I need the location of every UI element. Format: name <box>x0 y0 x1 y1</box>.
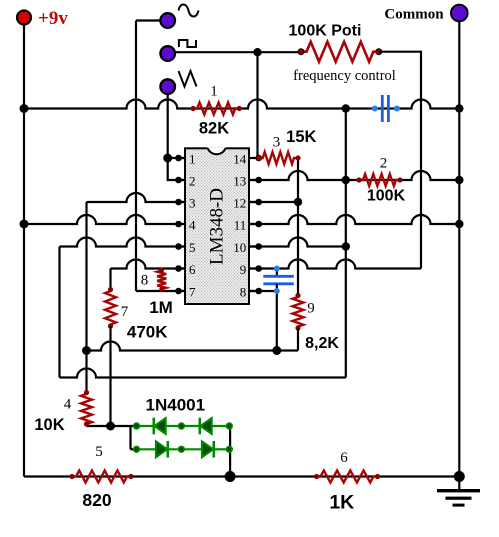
svg-text:5: 5 <box>189 240 196 255</box>
diode D3 1N4001 <box>156 441 168 458</box>
wire square terminal row <box>175 51 301 53</box>
capacitor C2 top plate <box>263 275 294 278</box>
resistor R5 right dot <box>128 474 133 479</box>
svg-text:2: 2 <box>189 174 196 189</box>
resistor R9 zigzag <box>293 295 304 329</box>
junction dot bridge bottom <box>225 471 236 482</box>
wire square drop to pin14 <box>256 52 258 158</box>
svg-text:1N4001: 1N4001 <box>146 396 206 415</box>
label 8 <box>141 273 149 289</box>
diode D1 1N4001 <box>154 418 166 435</box>
wire pin9 row <box>249 260 421 269</box>
bridge dot TL <box>134 423 140 429</box>
pin 8 number <box>240 285 247 300</box>
resistor R9 top dot <box>295 293 300 298</box>
wire pin3 row <box>87 193 186 202</box>
junction dot pin1 <box>163 154 172 163</box>
resistor R6 left dot <box>314 474 319 479</box>
pin 2 number <box>189 174 196 189</box>
node triangle output terminal <box>160 79 175 94</box>
wire common rail <box>458 21 460 477</box>
resistor R5 820 zigzag <box>72 471 131 483</box>
label 1 <box>210 84 218 100</box>
label 7 <box>121 304 129 320</box>
wire pin11 row <box>249 215 459 224</box>
resistor R1 left dot <box>191 106 196 111</box>
junction dot rail-bus <box>20 104 29 113</box>
svg-text:13: 13 <box>233 174 246 189</box>
capacitor C1 left plate <box>381 95 384 122</box>
bridge dot BC <box>179 446 185 452</box>
label 100K Poti <box>289 23 362 40</box>
pin 2 stub <box>175 177 185 184</box>
pin 13 stub <box>249 177 262 184</box>
pin 9 number <box>240 262 247 277</box>
svg-text:820: 820 <box>82 490 111 510</box>
sine waveform symbol <box>179 5 199 17</box>
wire mid vertical x345 <box>345 109 347 378</box>
resistor R5 left dot <box>69 474 74 479</box>
wire triangle drop to pin1 <box>167 94 169 158</box>
resistor R3 right dot <box>295 155 300 160</box>
resistor R2 100K zigzag <box>359 174 400 186</box>
junction dot row351 left <box>82 346 91 355</box>
svg-text:8: 8 <box>141 273 149 289</box>
svg-text:6: 6 <box>340 450 348 466</box>
junction dot square row <box>253 48 261 56</box>
capacitor C1 left dot <box>372 106 378 112</box>
svg-text:6: 6 <box>189 262 196 277</box>
resistor R8 bottom dot <box>159 287 164 292</box>
svg-text:5: 5 <box>95 444 103 460</box>
label 5 <box>95 444 103 460</box>
resistor R6 1K zigzag <box>317 471 378 483</box>
resistor R1 right dot <box>237 106 242 111</box>
wire R7 bottom lead <box>109 327 111 427</box>
svg-text:7: 7 <box>189 285 196 300</box>
label LM348-D <box>206 188 227 265</box>
svg-text:+9v: +9v <box>38 8 68 29</box>
resistor R2 left dot <box>356 177 361 182</box>
pin 12 stub <box>249 199 262 206</box>
resistor R3 15K zigzag <box>259 152 298 164</box>
pin 7 number <box>189 285 196 300</box>
capacitor C2 bottom dot <box>274 288 280 294</box>
resistor R3 left dot <box>256 155 261 160</box>
label 100K <box>367 188 406 205</box>
svg-text:2: 2 <box>380 156 388 172</box>
resistor R4 zigzag <box>81 392 92 426</box>
label 1N4001 <box>146 396 206 415</box>
junction dot pin11 common <box>455 220 463 228</box>
svg-text:1: 1 <box>189 152 196 167</box>
resistor R7 top dot <box>108 287 113 292</box>
svg-text:3: 3 <box>189 196 196 211</box>
pin 4 number <box>189 218 196 233</box>
label 3 <box>273 135 281 151</box>
resistor R8 top dot <box>159 268 164 273</box>
label 8,2K <box>305 335 339 352</box>
diode D4 1N4001 <box>202 441 214 458</box>
wire cap2 top stub <box>276 269 278 277</box>
junction dot common bottom <box>454 471 465 482</box>
capacitor C2 top dot <box>274 266 280 272</box>
potentiometer 100K Poti zigzag <box>301 42 379 62</box>
wire bus row y108 <box>24 100 459 109</box>
pin 1 number <box>189 152 196 167</box>
svg-text:100K Poti: 100K Poti <box>289 23 362 40</box>
svg-text:9: 9 <box>240 262 247 277</box>
label 9 <box>307 301 315 317</box>
wire R7 top lead <box>109 269 111 290</box>
ground symbol <box>437 489 480 507</box>
wire pin2 branch <box>168 158 185 180</box>
resistor R7 zigzag <box>105 289 116 327</box>
capacitor C1 right plate <box>387 95 390 122</box>
label 1K <box>329 492 354 514</box>
wire sine vertical drop to pin7 <box>135 21 137 292</box>
junction dot pin10 x345 <box>342 242 350 250</box>
svg-text:8: 8 <box>240 285 247 300</box>
svg-text:10: 10 <box>233 240 246 255</box>
diode D2 1N4001 <box>200 418 212 435</box>
svg-text:7: 7 <box>121 304 129 320</box>
bridge dot BR <box>226 446 232 452</box>
wire sine terminal to vertical <box>136 19 160 21</box>
square waveform symbol <box>179 40 196 47</box>
resistor R8 zigzag <box>157 269 166 292</box>
pin 1 stub <box>175 155 185 162</box>
label 10K <box>34 416 64 434</box>
pin 10 number <box>233 240 246 255</box>
wire pin8 row <box>249 290 277 292</box>
label 470K <box>127 323 168 342</box>
capacitor C2 bottom plate <box>263 282 294 285</box>
pin 8 stub <box>249 288 262 295</box>
wire pin7 row <box>136 290 185 292</box>
pin 6 stub <box>175 265 185 272</box>
svg-text:12: 12 <box>233 196 246 211</box>
svg-text:frequency control: frequency control <box>293 68 396 84</box>
pin 10 stub <box>249 243 262 250</box>
wire row426 <box>87 425 137 427</box>
svg-text:4: 4 <box>189 218 196 233</box>
pin 6 number <box>189 262 196 277</box>
wire pin4 row <box>24 215 185 224</box>
pin 4 stub <box>175 221 185 228</box>
wire pin5 row <box>60 238 186 247</box>
label 4 <box>64 397 72 413</box>
wire bridge right vertical black <box>229 426 231 477</box>
pin 14 number <box>233 152 247 167</box>
svg-text:Common: Common <box>384 7 444 23</box>
resistor R7 bottom dot <box>108 323 113 328</box>
svg-text:1M: 1M <box>149 298 173 317</box>
svg-text:8,2K: 8,2K <box>305 335 339 352</box>
svg-text:3: 3 <box>273 135 281 151</box>
pin 3 number <box>189 196 196 211</box>
label 2 <box>380 156 388 172</box>
svg-text:9: 9 <box>307 301 315 317</box>
label +9v <box>38 8 68 29</box>
pin 9 stub <box>249 265 262 272</box>
pin 7 stub <box>175 288 185 295</box>
resistor R9 bottom dot <box>295 325 300 330</box>
wire poti right corner down <box>379 52 421 269</box>
junction dot pin13 common <box>455 176 463 184</box>
op-amp U1 LM348-D body <box>185 148 249 304</box>
label 820 <box>82 490 111 510</box>
node sine output terminal <box>160 13 175 28</box>
pin 14 stub <box>249 155 262 162</box>
junction dot row426 <box>106 422 115 431</box>
pin 11 number <box>234 218 247 233</box>
label 1M <box>149 298 173 317</box>
junction dot rail pin4 <box>20 220 29 229</box>
bridge dot TC <box>179 423 185 429</box>
triangle waveform symbol <box>179 71 197 87</box>
label 15K <box>286 128 316 146</box>
svg-text:4: 4 <box>64 397 72 413</box>
node +9v terminal <box>17 11 31 25</box>
wire pin13 row <box>249 171 459 180</box>
svg-text:470K: 470K <box>127 323 168 342</box>
pin 11 stub <box>249 221 262 228</box>
bridge dot TR <box>226 423 232 429</box>
junction dot pin13 x345 <box>342 176 350 184</box>
pin 3 stub <box>175 199 185 206</box>
resistor R2 right dot <box>397 177 402 182</box>
wire bottom row <box>24 475 459 477</box>
wire ground stub <box>458 477 460 490</box>
wire pin6 row <box>111 260 186 269</box>
poti left dot <box>298 49 304 55</box>
pin 5 number <box>189 240 196 255</box>
wire x298 vertical <box>297 158 299 295</box>
node square output terminal <box>160 46 175 61</box>
node Common terminal <box>451 5 468 22</box>
pin 13 number <box>233 174 246 189</box>
svg-text:14: 14 <box>233 152 247 167</box>
pin 12 number <box>233 196 246 211</box>
bridge dot BL <box>134 446 140 452</box>
wire +9v rail vertical <box>23 25 25 477</box>
label frequency control <box>293 68 396 84</box>
wire pin5 corner drop <box>58 247 60 378</box>
resistor R4 top dot <box>84 390 89 395</box>
svg-text:15K: 15K <box>286 128 316 146</box>
junction dot cap2 row351 <box>272 346 281 355</box>
wire bridge bottom rail <box>137 448 230 450</box>
svg-text:100K: 100K <box>367 188 406 205</box>
wire cap2 bottom stub <box>276 284 278 351</box>
poti right dot <box>376 49 382 55</box>
wire pin12 row <box>249 201 298 203</box>
junction dot bus x345 <box>342 104 350 112</box>
pin 5 stub <box>175 243 185 250</box>
wire bridge top rail <box>137 425 230 427</box>
wire pin3 corner drop <box>85 202 87 392</box>
op-amp U1 notch <box>207 147 226 154</box>
wire bridge left vertical <box>131 426 137 449</box>
wire R9 bottom lead <box>297 329 299 351</box>
label 6 <box>340 450 348 466</box>
junction dot pin12 <box>294 198 302 206</box>
wire pin10 row <box>249 238 346 247</box>
resistor R6 right dot <box>375 474 380 479</box>
label 82K <box>199 120 229 138</box>
svg-text:10K: 10K <box>34 416 64 434</box>
wire pin1 junction <box>168 157 185 159</box>
resistor R1 82K zigzag <box>193 103 239 115</box>
svg-text:LM348-D: LM348-D <box>206 188 227 265</box>
junction dot bus common <box>455 104 463 112</box>
resistor R4 bottom dot <box>84 421 89 426</box>
label Common <box>384 7 444 23</box>
capacitor C1 right dot <box>394 106 400 112</box>
svg-text:82K: 82K <box>199 120 229 138</box>
svg-text:11: 11 <box>234 218 247 233</box>
svg-text:1K: 1K <box>329 492 354 514</box>
wire row377 <box>60 369 346 378</box>
wire row351 <box>87 342 299 351</box>
svg-text:1: 1 <box>210 84 218 100</box>
